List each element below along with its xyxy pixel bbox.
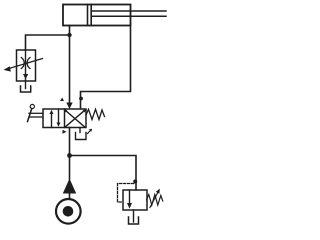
throttle internal flow arrow [23, 74, 28, 79]
throttle valve FC body [17, 50, 36, 81]
wire branch to relief valve [70, 156, 137, 191]
wire branch to throttle valve [26, 35, 70, 50]
valve lever knob [30, 104, 34, 108]
throttle valve flow line [25, 50, 27, 89]
exhaust tick arrow [88, 130, 92, 134]
piston rod [91, 11, 166, 16]
wire valve port P to pump [69, 128, 71, 180]
left position flow path 2 [58, 109, 60, 123]
throttle adjustment arrowhead [4, 66, 11, 71]
node relief valve pilot takeoff [133, 180, 137, 184]
label blob P [63, 130, 67, 134]
piston [88, 5, 92, 26]
tank under relief valve [129, 217, 139, 224]
relief valve internal arrow [127, 203, 132, 209]
node junction cap-line / throttle branch [67, 33, 71, 37]
relief adjustment arrowhead [156, 189, 160, 194]
right position crossed paths [65, 110, 85, 127]
node dot on port B line [79, 97, 83, 101]
throttle restriction arcs [21, 58, 30, 69]
node junction pump / relief branch [67, 153, 72, 158]
pump pressure source circle [56, 199, 81, 224]
valve lever pivot lines [29, 113, 43, 117]
relief valve spring [147, 195, 163, 206]
relief valve internal path [129, 190, 131, 204]
wire cylinder rod-end to valve port B [81, 26, 131, 109]
arrow on path 2 [57, 123, 61, 127]
valve port T exhaust line [79, 128, 81, 133]
arrow into valve port A [66, 103, 72, 110]
relief valve body [123, 190, 147, 210]
cylinder body [63, 5, 131, 26]
relief spring adjustment arrow [150, 190, 159, 208]
pump inner dot [63, 206, 74, 217]
left position flow path 1 [51, 113, 53, 128]
directional valve body 4/2 [43, 109, 86, 128]
pilot line dashed [118, 184, 134, 203]
flow direction arrow above pump [63, 179, 76, 194]
exhaust tick arrowhead [89, 129, 92, 132]
wire cylinder cap-end down to valve port A [69, 26, 71, 103]
wire arrow to pump [69, 194, 71, 199]
throttle adjustment arrow [7, 59, 43, 70]
valve lever arm [28, 109, 32, 122]
valve spring [86, 109, 105, 119]
crossed path arrowheads [64, 110, 85, 113]
exhaust collector bracket [76, 133, 87, 140]
relief valve drain line [133, 210, 135, 222]
tank under throttle valve [21, 86, 31, 92]
label blob A [60, 98, 64, 102]
arrow on path 1 [50, 110, 54, 114]
